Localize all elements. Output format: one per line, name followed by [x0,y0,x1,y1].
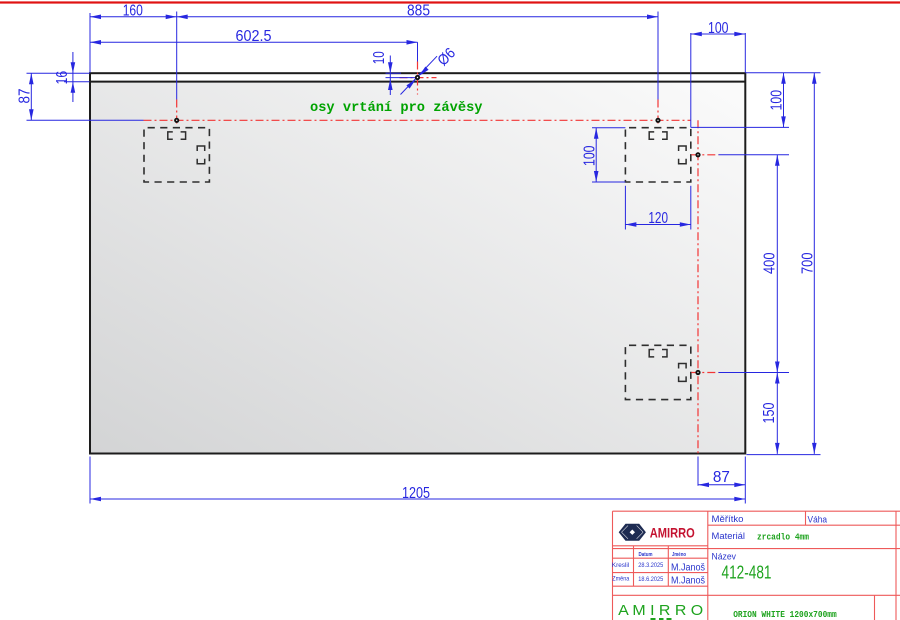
svg-text:Datum: Datum [639,552,653,558]
svg-text:Kreslil: Kreslil [612,562,630,569]
svg-text:16: 16 [54,71,71,85]
svg-text:18.6.2025: 18.6.2025 [638,576,663,583]
svg-text:700: 700 [799,252,816,274]
svg-text:100: 100 [582,145,599,166]
svg-text:M.Janoš: M.Janoš [671,563,705,574]
svg-text:zrcadlo 4mm: zrcadlo 4mm [757,531,809,542]
svg-text:885: 885 [407,3,430,20]
svg-text:Jméno: Jméno [672,552,686,558]
svg-text:87: 87 [713,469,730,486]
svg-text:10: 10 [371,51,388,64]
svg-text:120: 120 [648,210,668,227]
svg-text:160: 160 [123,3,143,20]
svg-text:ORION WHITE 1200x700mm: ORION WHITE 1200x700mm [733,609,837,620]
svg-text:28.3.2025: 28.3.2025 [638,562,663,569]
svg-text:M.Janoš: M.Janoš [671,575,705,586]
svg-text:100: 100 [768,90,785,111]
svg-text:100: 100 [708,20,729,37]
svg-text:400: 400 [761,252,778,274]
svg-text:Materiál: Materiál [712,531,746,541]
svg-text:1205: 1205 [402,485,430,502]
svg-text:150: 150 [761,402,778,423]
svg-text:602.5: 602.5 [236,28,272,45]
svg-text:Váha: Váha [808,514,828,524]
svg-text:AMIRRO: AMIRRO [650,524,695,540]
svg-text:Změna: Změna [612,576,629,583]
svg-text:A M I R R O: A M I R R O [618,603,703,619]
svg-text:412-481: 412-481 [722,562,772,583]
svg-text:87: 87 [16,88,33,103]
svg-text:Název: Název [712,552,737,562]
svg-text:Měřítko: Měřítko [712,514,744,524]
svg-text:osy vrtání pro závěsy: osy vrtání pro závěsy [310,100,483,116]
